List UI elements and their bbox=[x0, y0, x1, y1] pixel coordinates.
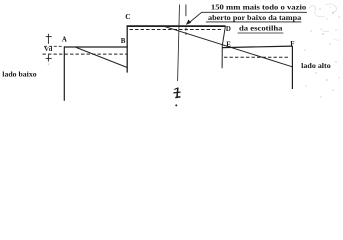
svg-text:lado baixo: lado baixo bbox=[2, 71, 37, 79]
svg-text:B: B bbox=[121, 38, 126, 45]
svg-text:E: E bbox=[226, 41, 231, 48]
svg-text:F: F bbox=[290, 41, 294, 48]
svg-text:Vd: Vd bbox=[44, 46, 53, 53]
svg-text:aberto por baixo da tampa: aberto por baixo da tampa bbox=[208, 13, 302, 22]
svg-text:D: D bbox=[226, 26, 231, 33]
svg-text:A: A bbox=[62, 36, 67, 43]
svg-text:da escotilha: da escotilha bbox=[239, 24, 283, 33]
svg-text:150 mm mais todo o vazio: 150 mm mais todo o vazio bbox=[211, 2, 307, 11]
svg-text:lado alto: lado alto bbox=[301, 62, 331, 70]
svg-text:C: C bbox=[125, 12, 130, 21]
